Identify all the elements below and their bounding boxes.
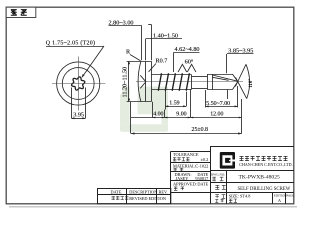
svg-text:1.59: 1.59: [169, 101, 179, 107]
outer circle: [57, 62, 100, 105]
svg-text:110°: 110°: [249, 79, 254, 88]
company logo (C in C): [220, 152, 235, 169]
svg-text:DWG.NO.: DWG.NO.: [211, 173, 225, 177]
svg-text:Q 1.75~2.05 (T20): Q 1.75~2.05 (T20): [46, 40, 96, 47]
svg-text:DATE: DATE: [111, 190, 122, 195]
bottom dim row 2: 25±0.8: [130, 102, 132, 134]
right block top: [210, 146, 294, 148]
svg-text:C-1022: C-1022: [195, 163, 208, 168]
threads: [158, 73, 189, 91]
head dome profile: [138, 61, 141, 101]
drill flutes: [212, 75, 237, 81]
torx recess (6-lobe silhouette): [72, 77, 85, 90]
revision date CJK: [112, 196, 129, 199]
dim 3.95 under top view: [71, 88, 73, 119]
left column outline: [171, 151, 210, 153]
head flange: [145, 61, 147, 101]
leader to torx: [82, 46, 104, 77]
arrowheads 3.95: [71, 117, 74, 119]
arrowheads row1: [153, 117, 156, 119]
bottom dim row 1: 4.00 / 9.00 / 12.00: [131, 117, 242, 119]
dim 1.59 (pitch): [165, 88, 167, 110]
svg-text:MATERIAL:: MATERIAL:: [173, 163, 196, 168]
drill tip: [232, 74, 237, 90]
svg-text:5.50~7.00: 5.50~7.00: [206, 101, 230, 107]
svg-text:DATE: DATE: [197, 182, 208, 187]
notice text (CJK glyphs): [11, 10, 27, 16]
arrowheads 5.50~7.00: [206, 105, 209, 107]
edition/page dividers: [272, 193, 274, 204]
svg-text:REV.: REV.: [159, 190, 168, 195]
right rows: [210, 170, 294, 172]
page shadow line bottom: [9, 206, 297, 208]
drawing frame: [6, 7, 294, 204]
svg-text:±0.2: ±0.2: [201, 157, 209, 162]
notice box top-left: [6, 7, 36, 17]
left column row lines: [171, 162, 210, 164]
svg-text:DESCRIPTION: DESCRIPTION: [129, 190, 157, 195]
crosshair centerlines: [52, 83, 106, 85]
svg-text:REVISED EDITION: REVISED EDITION: [129, 196, 166, 201]
revision table: [97, 189, 171, 204]
torx recess wedge in head: [140, 75, 146, 88]
dim 5.50~7.00 (drill length): [205, 90, 207, 107]
label/value divider: [226, 171, 228, 204]
svg-text:930817: 930817: [195, 176, 209, 181]
svg-text:4.62~4.80: 4.62~4.80: [175, 46, 200, 53]
drill body: [207, 74, 232, 76]
svg-text:12.00: 12.00: [210, 112, 223, 118]
horizontal centerline: [136, 81, 243, 83]
svg-text:SIZE: ST4.8: SIZE: ST4.8: [229, 194, 251, 199]
svg-text:60°: 60°: [185, 59, 194, 66]
svg-text:JASEY: JASEY: [176, 176, 189, 181]
svg-text:EDITION: EDITION: [274, 194, 287, 198]
left/right divider: [210, 146, 212, 204]
svg-text:9.00: 9.00: [176, 112, 186, 118]
svg-text:SELF DRILLING SCREW: SELF DRILLING SCREW: [238, 187, 291, 192]
svg-text:TOLERANCE: TOLERANCE: [173, 152, 199, 157]
shank lines: [151, 74, 191, 76]
company name CJK: [240, 156, 288, 160]
TITLE BLOCK: [171, 146, 294, 204]
pilot section: [192, 76, 208, 78]
svg-text:25±0.8: 25±0.8: [192, 127, 209, 133]
size row: [215, 195, 225, 203]
svg-text:APPROVED:: APPROVED:: [173, 182, 197, 187]
110 degree point angle: [235, 64, 246, 86]
arrowheads 1.59: [165, 105, 168, 107]
svg-text:R0.7: R0.7: [156, 57, 168, 64]
svg-text:11.20~11.50: 11.20~11.50: [122, 67, 129, 98]
svg-text:TK-PWXB-48025: TK-PWXB-48025: [239, 174, 281, 180]
part name row: [215, 185, 226, 189]
svg-text:PAGE: PAGE: [287, 194, 295, 198]
middle circle: [62, 68, 94, 100]
watermark logo (light green company mark): [120, 87, 168, 132]
